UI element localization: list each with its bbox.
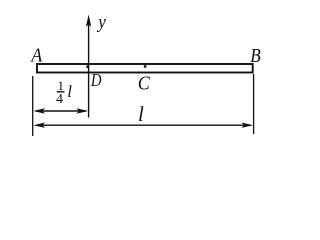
svg-text:4: 4 — [56, 92, 63, 107]
svg-text:l: l — [138, 102, 144, 126]
fraction bar — [57, 91, 65, 93]
left arrow of l dimension — [33, 123, 45, 128]
y-axis arrowhead — [86, 15, 91, 27]
svg-text:D: D — [90, 70, 101, 90]
svg-text:y: y — [96, 12, 106, 33]
svg-text:B: B — [250, 45, 261, 67]
svg-text:l: l — [67, 82, 72, 101]
dot at C — [144, 65, 147, 68]
svg-text:C: C — [138, 73, 151, 95]
dot at D — [86, 65, 89, 68]
left arrow of 1/4 l dimension — [33, 108, 45, 113]
y-axis line — [88, 22, 90, 118]
dimension line l — [36, 124, 251, 126]
svg-text:A: A — [30, 44, 43, 66]
dimension line 1/4 l — [36, 110, 86, 112]
right arrow of 1/4 l dimension — [76, 108, 88, 113]
left extension line — [32, 76, 34, 136]
svg-text:1: 1 — [58, 78, 65, 93]
right arrow of l dimension — [241, 123, 253, 128]
right extension line — [253, 74, 255, 134]
rod AB (bar) — [37, 64, 253, 73]
